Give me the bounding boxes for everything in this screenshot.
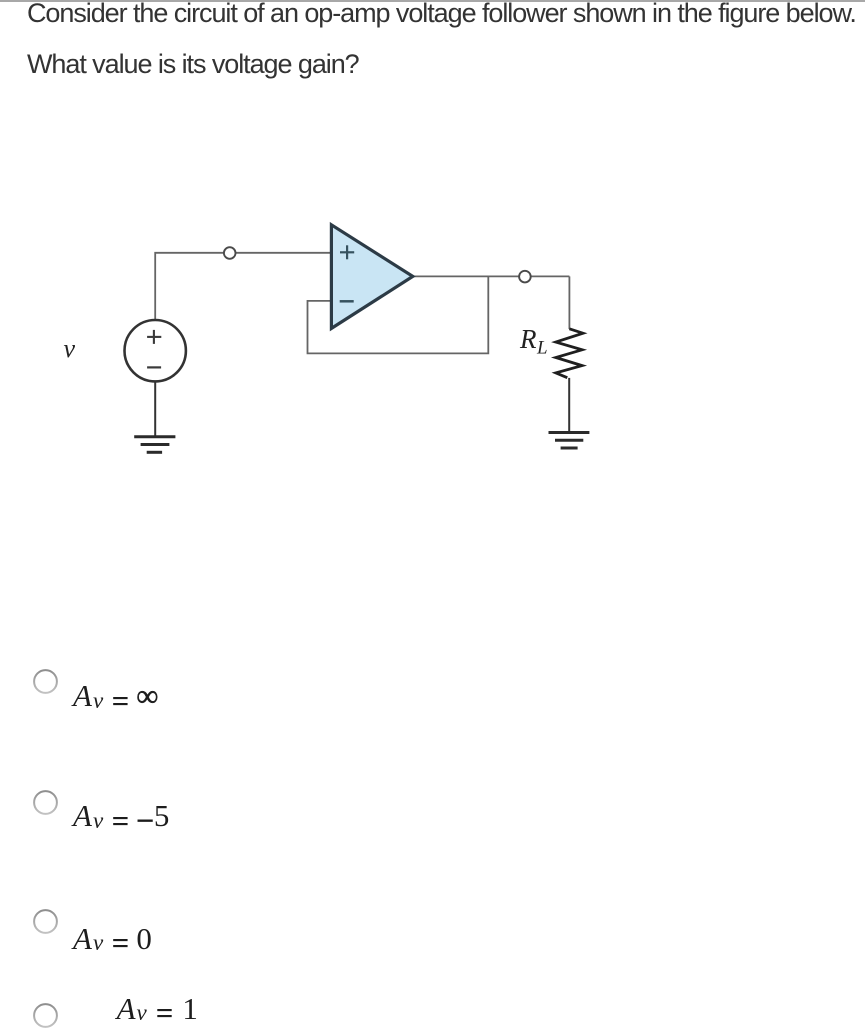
answer option 2 label <box>73 798 169 839</box>
source + sign <box>147 330 161 344</box>
wire: source bottom to ground <box>154 381 156 436</box>
ground (left) <box>134 437 175 453</box>
answer option 3 radio <box>33 909 58 934</box>
wire: feedback loop output to inverting input <box>308 276 489 353</box>
wire: output node down to load resistor <box>568 276 570 329</box>
question text line 2 <box>27 49 359 80</box>
wire: source top to op-amp + input (horizontal) <box>155 253 331 320</box>
answer option 3 label <box>73 921 152 962</box>
answer option 4 label <box>117 991 198 1031</box>
ground (right) <box>549 433 590 449</box>
resistor RL <box>556 329 583 378</box>
wire: op-amp output <box>412 275 570 277</box>
op-amp U1 <box>331 225 412 329</box>
node A (input terminal open circle) <box>224 247 236 259</box>
svg-text:R: R <box>519 324 537 354</box>
circuit schematic <box>0 0 865 520</box>
answer option 2 radio <box>33 790 58 815</box>
wire: resistor bottom to ground <box>568 378 570 432</box>
op-amp - input label <box>340 300 354 303</box>
node B (output terminal open circle) <box>519 271 531 283</box>
answer option 1 label <box>73 678 158 719</box>
answer option 1 radio <box>33 669 58 694</box>
op-amp + input label <box>340 245 354 259</box>
question text line 1 <box>27 0 856 29</box>
top border line <box>0 0 865 2</box>
svg-text:v: v <box>64 334 76 363</box>
svg-text:L: L <box>536 338 548 359</box>
source - sign <box>147 366 161 368</box>
voltage source V1 <box>125 320 186 381</box>
answer option 4 radio (partially cut off) <box>33 1003 58 1028</box>
